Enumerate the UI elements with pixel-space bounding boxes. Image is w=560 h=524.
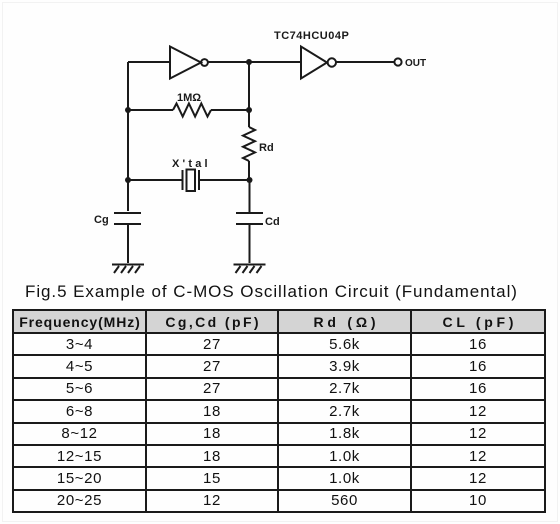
node: junction dot at feedback node top <box>246 59 252 65</box>
node OUT terminal circle <box>394 58 401 65</box>
op-amp U1B output bubble <box>328 58 336 66</box>
wire: right rail R1 to Rd <box>248 110 250 127</box>
wire: Cg bottom lead <box>127 225 129 263</box>
crystal X1 body box <box>187 170 196 192</box>
op-amp U1B inverter triangle <box>301 47 327 79</box>
label Cd <box>265 216 280 228</box>
wire: right rail crystal node to Cd <box>249 180 251 212</box>
table: oscillation circuit constants <box>12 309 546 513</box>
capacitor Cd bottom plate <box>236 223 263 225</box>
node: junction dot right end of R1 <box>246 107 252 113</box>
node: junction dot left end of R1 <box>125 107 131 113</box>
capacitor Cg bottom plate <box>114 223 141 225</box>
svg-text:X'tal: X'tal <box>172 158 211 170</box>
wire: crystal row right lead <box>199 179 250 181</box>
wire: 1M resistor row right lead <box>211 109 249 111</box>
label Cg <box>94 214 109 226</box>
wire: 1M resistor row left lead <box>128 109 173 111</box>
capacitor Cg top plate <box>114 212 141 214</box>
wire: Rd bottom lead to crystal node <box>248 161 250 180</box>
label OUT <box>405 58 426 69</box>
label TC74HCU04P <box>274 30 349 42</box>
svg-text:Cg: Cg <box>94 214 109 226</box>
wire: U1B output to OUT terminal <box>336 61 394 63</box>
wire: crystal row left lead <box>128 179 182 181</box>
op-amp U1A inverter triangle <box>170 47 201 79</box>
crystal X1 left plate <box>182 170 184 190</box>
label 1M ohm <box>177 92 201 104</box>
svg-text:OUT: OUT <box>405 58 426 69</box>
svg-text:Cd: Cd <box>265 216 280 228</box>
resistor R1 1M ohm zigzag <box>173 104 211 117</box>
resistor Rd vertical zigzag <box>243 127 255 161</box>
crystal X1 right plate <box>198 170 200 190</box>
node: junction dot crystal left <box>125 177 131 183</box>
node: junction dot crystal right <box>247 177 253 183</box>
ground symbol left <box>112 265 144 274</box>
label Rd <box>259 142 274 154</box>
label X'tal <box>172 158 211 170</box>
svg-text:1MΩ: 1MΩ <box>177 92 201 104</box>
wire: Cd bottom lead <box>249 225 251 263</box>
wire: top-left from left rail corner to inverter U1A input <box>128 61 170 63</box>
svg-text:TC74HCU04P: TC74HCU04P <box>274 30 349 42</box>
caption Fig.5 <box>25 282 518 302</box>
ground symbol right <box>234 265 266 274</box>
wire: right rail from top node down to 1M resistor row <box>248 62 250 110</box>
wire: left vertical rail <box>127 62 129 211</box>
wire: U1A output to U1B input <box>208 61 301 63</box>
op-amp U1A output bubble <box>201 59 208 66</box>
capacitor Cd top plate <box>236 212 263 214</box>
svg-text:Rd: Rd <box>259 142 274 154</box>
